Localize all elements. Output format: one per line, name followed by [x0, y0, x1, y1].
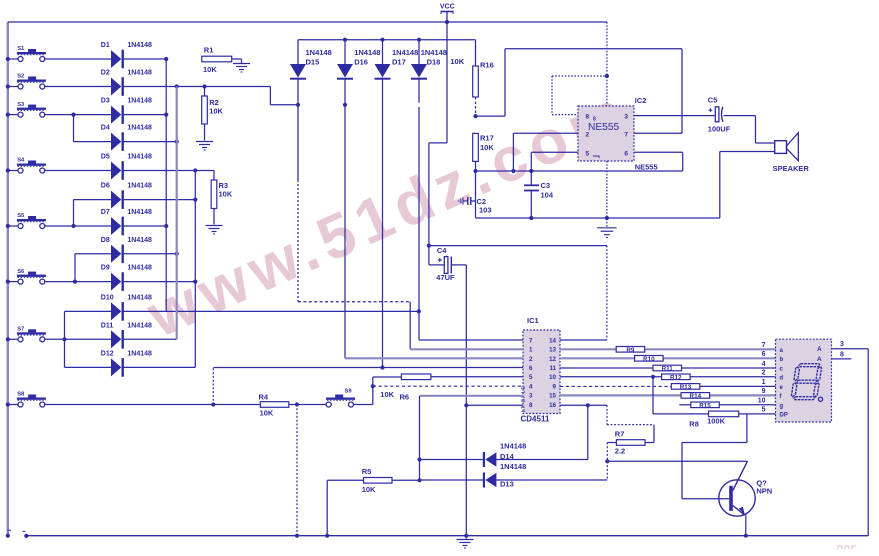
wire S9 to riser [353, 377, 401, 405]
border bottom end dot [6, 530, 11, 538]
watermark fragment bottom right [838, 546, 856, 549]
svg-text:1N4148: 1N4148 [127, 70, 152, 77]
wire D11 cathode to bus B [124, 338, 177, 340]
wire R16 bottom node [473, 49, 682, 118]
svg-text:R10: R10 [643, 356, 655, 363]
resistor R9 [616, 347, 645, 355]
switch S8 [6, 392, 46, 407]
svg-text:S1: S1 [17, 46, 25, 52]
wire segment b row [560, 357, 776, 359]
diode D6 1N4148 [101, 183, 152, 209]
svg-text:D15: D15 [306, 58, 320, 67]
svg-text:D13: D13 [500, 480, 514, 489]
svg-text:LT BI LE: LT BI LE [521, 385, 527, 412]
svg-text:D18: D18 [427, 58, 441, 67]
display pin 7 label [762, 342, 766, 349]
watermark www.51dz.com [137, 76, 641, 351]
svg-text:1: 1 [529, 347, 533, 354]
wire segment g row [679, 404, 775, 406]
wire IC1 pin7 row (A) [419, 339, 523, 341]
NE555 pin1 ground stub [606, 161, 608, 227]
svg-text:g: g [780, 403, 784, 409]
svg-text:S7: S7 [17, 327, 24, 333]
svg-text:11: 11 [549, 365, 556, 372]
wire R17 bottom to trigger node [473, 161, 477, 173]
display pin 9 label [762, 388, 766, 395]
diode D18 1N4148 [411, 40, 447, 80]
wire R2 to ground [204, 124, 206, 141]
svg-text:NPN: NPN [756, 487, 772, 496]
diode D16 1N4148 [337, 40, 380, 80]
capacitor C3 104 [524, 181, 554, 200]
wire S6 to D9 anode [44, 280, 111, 284]
switch S4 [6, 158, 46, 173]
svg-text:1N4148: 1N4148 [127, 237, 152, 244]
wire D2 cathode row [124, 84, 271, 88]
wire IC1 pin3 riser [417, 396, 421, 481]
svg-text:D17: D17 [392, 58, 406, 67]
svg-text:S5: S5 [17, 213, 25, 219]
svg-text:S6: S6 [17, 269, 25, 275]
local ground rail wire [476, 216, 720, 220]
wire IC1 pin3 row (LT) [420, 395, 524, 397]
bus B vertical wire [176, 87, 178, 340]
svg-text:5: 5 [529, 374, 533, 381]
wire D8 cathode to bus B [124, 252, 179, 256]
svg-text:DP: DP [780, 412, 788, 418]
transistor Q? NPN [719, 461, 772, 516]
wire node X to R7 left [607, 443, 616, 462]
svg-text:IC1: IC1 [527, 316, 539, 325]
svg-text:d: d [780, 375, 784, 381]
svg-text:1N4148: 1N4148 [306, 48, 332, 57]
svg-text:12: 12 [549, 356, 556, 363]
resistor R3 10K [211, 180, 233, 209]
svg-text:15: 15 [549, 393, 556, 400]
wire D9 cathode to bus C [124, 280, 198, 284]
trigger node wire [476, 169, 683, 173]
svg-text:D12: D12 [101, 351, 114, 358]
diode D5 1N4148 [101, 154, 152, 180]
svg-text:47UF: 47UF [436, 273, 455, 282]
svg-text:D10: D10 [101, 295, 114, 302]
ground under R2 [196, 142, 213, 151]
wire R4 to S9 [289, 402, 327, 406]
svg-text:1N4148: 1N4148 [392, 48, 418, 57]
resistor R11 [653, 365, 682, 373]
svg-text:1N4148: 1N4148 [127, 351, 152, 358]
svg-text:10K: 10K [219, 190, 233, 199]
svg-text:1N4148: 1N4148 [127, 98, 152, 105]
svg-text:100UF: 100UF [708, 124, 731, 133]
wire D10 cathode row to column D18 [124, 309, 421, 313]
wire speaker to ground rail [720, 152, 775, 219]
wire R1 to ground [232, 59, 242, 64]
wire R3 to ground [213, 209, 215, 225]
diode D11 1N4148 [101, 322, 152, 348]
svg-text:D9: D9 [101, 265, 110, 272]
wire node X to collector [607, 460, 747, 462]
capacitor C4 47UF [436, 246, 455, 282]
svg-text:D2: D2 [101, 70, 110, 77]
svg-text:R16: R16 [480, 61, 494, 70]
svg-text:1N4148: 1N4148 [127, 295, 152, 302]
diode D8 1N4148 [101, 237, 152, 263]
svg-text:R6: R6 [400, 393, 410, 402]
svg-text:10: 10 [549, 374, 556, 381]
svg-text:7: 7 [529, 337, 533, 344]
svg-text:D4: D4 [101, 125, 110, 132]
wire display pin3 common anode [832, 341, 869, 349]
wire D13 anode to node X [496, 459, 609, 480]
display pin 5 label [762, 407, 766, 414]
svg-text:7: 7 [624, 132, 628, 139]
svg-text:100K: 100K [707, 417, 726, 426]
VCC column wire [427, 22, 447, 265]
wire D3 cathode to bus A [124, 113, 169, 117]
wire to NE555 pin5 and C3 [531, 152, 578, 185]
wire D7 cathode to bus A [124, 224, 169, 228]
speaker LS1 [773, 133, 810, 173]
svg-text:6: 6 [624, 151, 628, 158]
wire C4 to IC1 pin8 row [451, 265, 468, 538]
svg-text:C4: C4 [437, 246, 447, 255]
wire to NE555 pin7 [634, 49, 682, 133]
svg-text:1N4148: 1N4148 [354, 48, 380, 57]
wire IC1 pin2 row (C) [345, 357, 523, 359]
svg-text:1N4148: 1N4148 [500, 462, 526, 471]
wire IC1 pin4 row (BI) [371, 384, 523, 388]
svg-text:4: 4 [529, 383, 533, 390]
svg-text:13: 13 [549, 347, 556, 354]
column D17 vertical wire [382, 79, 384, 368]
svg-text:R7: R7 [615, 429, 625, 438]
bottom ground rail wire [26, 535, 868, 537]
left border wire (VCC rail) [7, 22, 9, 536]
svg-text:D16: D16 [354, 58, 368, 67]
resistor R10 [635, 356, 664, 364]
ground for NE555 [597, 228, 617, 238]
svg-text:2: 2 [762, 370, 766, 377]
wire emitter to ground rail [744, 515, 748, 538]
wire D1 cathode to bus A [124, 57, 169, 61]
svg-text:10K: 10K [203, 65, 217, 74]
svg-text:S9: S9 [345, 389, 353, 395]
resistor R12 [662, 374, 691, 382]
display pin 10 label [758, 398, 766, 405]
svg-text:R14: R14 [690, 393, 702, 400]
display pin 6 label [762, 351, 766, 358]
wire D13 cathode [420, 479, 483, 481]
svg-text:1N4148: 1N4148 [127, 265, 152, 272]
svg-text:C5: C5 [708, 95, 718, 104]
wire R5 left to ground rail [325, 480, 363, 538]
wire trigger node down to C2 [475, 171, 477, 218]
7-segment display DS1 [776, 339, 832, 422]
ground under R3 [206, 226, 223, 235]
wire S5 branch to D6 [74, 200, 112, 226]
column D18 vertical wire [418, 79, 420, 340]
svg-text:3: 3 [840, 341, 844, 348]
wire R8 to transistor base [682, 414, 747, 499]
NE555 reset stub to VCC rail [605, 22, 609, 106]
diode D9 1N4148 [101, 265, 152, 291]
svg-text:104: 104 [541, 191, 554, 200]
svg-text:S8: S8 [17, 392, 25, 398]
switch S7 [6, 327, 46, 342]
wire S7 branch to D10 and D12 [65, 311, 112, 367]
wire R7 right loop to IC1 pin16 [607, 405, 654, 442]
svg-text:D6: D6 [101, 183, 110, 190]
svg-text:1N4148: 1N4148 [127, 154, 152, 161]
bus C vertical wire [194, 171, 196, 368]
column D16 vertical wire [343, 79, 347, 358]
wire S1 to D1 anode [44, 58, 111, 60]
svg-text:1N4148: 1N4148 [127, 322, 152, 329]
svg-text:14: 14 [549, 337, 556, 344]
resistor R14 [681, 393, 710, 401]
capacitor C5 100UF [708, 95, 731, 133]
svg-text:R11: R11 [662, 366, 674, 373]
svg-text:b: b [780, 357, 784, 363]
wire D4 cathode to bus B [124, 140, 179, 144]
svg-text:1N4148: 1N4148 [421, 48, 447, 57]
svg-text:D3: D3 [101, 98, 110, 105]
display pin 2 label [762, 370, 766, 377]
svg-text:9: 9 [762, 388, 766, 395]
wire C3 to ground rail [529, 191, 533, 221]
wire D12 cathode to bus C [124, 366, 196, 368]
svg-text:10K: 10K [260, 409, 274, 418]
svg-text:10K: 10K [480, 143, 494, 152]
svg-text:SPEAKER: SPEAKER [773, 164, 810, 173]
svg-text:D8: D8 [101, 237, 110, 244]
svg-text:S2: S2 [17, 74, 24, 80]
wire IC1 pin6 row (D) from S8 [211, 365, 523, 406]
VCC power symbol [440, 4, 455, 24]
svg-text:103: 103 [479, 206, 492, 215]
switch S3 [6, 102, 46, 117]
wire S2 to D2 anode [44, 86, 111, 88]
diode D14 1N4148 [483, 441, 526, 467]
resistor R8 100K [689, 411, 738, 429]
wire C5 to speaker [724, 116, 775, 143]
svg-text:D1: D1 [101, 42, 110, 49]
svg-text:6: 6 [529, 365, 533, 372]
svg-text:10K: 10K [209, 107, 223, 116]
svg-text:10K: 10K [362, 485, 376, 494]
column D15 jog to IC1 pin1 row [298, 302, 410, 350]
resistor R6 10K [380, 374, 431, 402]
diode D4 1N4148 [101, 125, 152, 151]
display pin8 stub [832, 352, 852, 359]
svg-text:1N4148: 1N4148 [127, 125, 152, 132]
svg-text:NE555: NE555 [588, 122, 619, 133]
wire segment c row [560, 367, 776, 369]
capacitor C2 103 [459, 197, 492, 215]
svg-text:5: 5 [586, 151, 590, 158]
bus A vertical wire [165, 59, 167, 311]
diode D12 1N4148 [101, 351, 152, 377]
wire NE555 pin3 to C5 [634, 115, 715, 117]
svg-text:R8: R8 [689, 420, 699, 429]
switch S2 [6, 74, 46, 89]
svg-text:CD4511: CD4511 [521, 415, 550, 424]
wire R5 right to D13 row [392, 478, 422, 482]
wire D5 row to R3 [213, 171, 215, 181]
wire IC1 pin5 row (LE) [431, 376, 523, 378]
svg-text:VCC: VCC [440, 4, 455, 11]
svg-text:10K: 10K [450, 57, 464, 66]
diode D17 1N4148 [375, 40, 419, 80]
wire S4 to D5 anode [44, 170, 111, 172]
svg-text:R4: R4 [259, 393, 269, 402]
display pin 1 label [762, 379, 766, 386]
ground after R1 [233, 64, 250, 73]
svg-text:R1: R1 [204, 46, 214, 55]
diode D10 1N4148 [101, 295, 152, 321]
switch S5 [6, 213, 46, 228]
wire S3 to D3 anode [44, 113, 111, 117]
resistor R5 10K [362, 467, 392, 494]
column D15 vertical wire [297, 79, 299, 302]
resistor R15 [691, 402, 720, 410]
svg-text:10: 10 [758, 398, 766, 405]
wire to NE555 pin2 [513, 133, 578, 171]
svg-text:S4: S4 [17, 158, 25, 164]
svg-text:9: 9 [553, 383, 557, 390]
wire S7 to D11 anode [44, 337, 111, 341]
wire IC1 pin16 row [560, 404, 607, 406]
resistor R4 10K [259, 393, 289, 418]
svg-text:D5: D5 [101, 154, 110, 161]
switch S9 [326, 389, 355, 407]
svg-text:1N4148: 1N4148 [500, 441, 526, 450]
wire S8 row to R4 [44, 404, 260, 406]
ground rail start dot [23, 531, 29, 538]
NE555 pin8 loop wire [552, 76, 607, 115]
wire segment f row [560, 394, 776, 396]
svg-text:R5: R5 [362, 467, 372, 476]
svg-text:6: 6 [762, 351, 766, 358]
svg-text:R15: R15 [699, 403, 711, 410]
wire IC1 pin1 row (B) [410, 348, 523, 350]
wire D16 column to IC1 pin2 row corner [344, 357, 346, 359]
svg-text:S3: S3 [17, 102, 25, 108]
resistor R1 10K [202, 46, 232, 75]
wire D6 cathode to bus C [124, 198, 198, 202]
wire D14 cathode [420, 459, 483, 461]
anode rail for D15-D18 [298, 38, 476, 42]
svg-text:4: 4 [762, 361, 766, 368]
svg-text:5: 5 [762, 407, 766, 414]
wire D2 row jog to column D15 [270, 87, 300, 107]
op-amp timer U2 NE555 (IC2) [578, 96, 658, 171]
top rail wire (VCC) [8, 21, 607, 23]
wire IC1 pin8 row (GND) [466, 404, 523, 406]
svg-text:3: 3 [624, 113, 628, 120]
svg-text:IC2: IC2 [635, 96, 647, 105]
svg-text:2.2: 2.2 [615, 447, 625, 456]
svg-text:8: 8 [529, 402, 533, 409]
diode D1 1N4148 [101, 42, 152, 68]
svg-text:R17: R17 [480, 134, 494, 143]
wire segment d row [560, 375, 776, 379]
wire pin14 row to VCC node [429, 246, 607, 340]
svg-text:1N4148: 1N4148 [127, 209, 152, 216]
resistor R2 10K [202, 87, 224, 125]
wire DP row via R8 [653, 377, 776, 414]
diode D13 1N4148 [483, 462, 526, 489]
svg-text:1: 1 [762, 379, 766, 386]
svg-text:NE555: NE555 [635, 162, 658, 171]
wire S5 to D7 anode [44, 224, 111, 228]
switch S6 [6, 269, 46, 284]
logic IC U1 CD4511 (IC1) [521, 316, 561, 424]
svg-text:R13: R13 [680, 384, 692, 391]
wire D5 cathode row to R3 [124, 168, 214, 172]
right border wire [867, 349, 869, 536]
svg-text:R12: R12 [670, 375, 682, 382]
svg-text:8: 8 [586, 113, 590, 120]
svg-text:R9: R9 [626, 347, 635, 354]
svg-text:10K: 10K [380, 390, 394, 399]
wire S6 branch to D8 [75, 254, 111, 282]
svg-text:D11: D11 [101, 322, 114, 329]
svg-text:16: 16 [549, 402, 556, 409]
diode D2 1N4148 [101, 70, 152, 96]
wire segment a row [560, 348, 776, 350]
svg-text:A: A [817, 346, 822, 353]
diode D15 1N4148 [290, 40, 332, 80]
wire D14 anode to IC1 pin16 row [496, 403, 590, 459]
ground on bottom rail [457, 536, 474, 548]
resistor R16 10K [450, 40, 493, 97]
resistor R17 10K [473, 133, 495, 161]
svg-text:1N4148: 1N4148 [127, 42, 152, 49]
diode D3 1N4148 [101, 98, 152, 124]
resistor R13 [671, 384, 700, 392]
display pin 4 label [762, 361, 766, 368]
switch S1 [6, 46, 46, 61]
svg-text:7: 7 [762, 342, 766, 349]
svg-text:2: 2 [529, 356, 533, 363]
wire segment e row [560, 385, 776, 387]
wire R4 node to ground rail [295, 405, 299, 538]
wire NE555 pin4 loop [634, 152, 683, 171]
svg-text:8: 8 [840, 352, 844, 359]
svg-text:A: A [817, 356, 822, 363]
diode D7 1N4148 [101, 209, 152, 235]
wire S3 branch to D4 [74, 115, 112, 142]
svg-text:1N4148: 1N4148 [127, 183, 152, 190]
svg-text:D7: D7 [101, 209, 110, 216]
resistor R7 2.2 [615, 429, 645, 455]
svg-text:C3: C3 [541, 181, 551, 190]
svg-text:3: 3 [529, 393, 533, 400]
